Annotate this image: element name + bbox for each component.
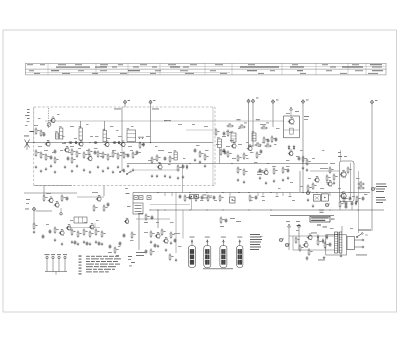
capacitor C7	[94, 150, 97, 155]
wire W_l10	[219, 148, 221, 164]
IF transformer coil L6	[174, 150, 178, 160]
switch contact S1	[119, 169, 124, 173]
resistor R58	[243, 152, 247, 159]
terminal J2	[149, 100, 152, 104]
transistor T23	[340, 192, 347, 200]
mains plug P1	[347, 237, 364, 250]
wire W_f1	[138, 214, 140, 250]
resistor R31	[71, 228, 76, 235]
speaker terminal arrows	[286, 221, 317, 250]
resistor R54	[356, 195, 361, 202]
node N35	[189, 209, 190, 210]
resistor R53	[343, 195, 348, 202]
ceramic filter F3	[147, 196, 151, 200]
capacitor C31	[154, 243, 157, 248]
ground GND8	[76, 164, 79, 167]
node N8	[270, 192, 271, 193]
transistor T29	[124, 218, 129, 224]
title block row line mid	[26, 68, 387, 70]
resistor R20	[156, 154, 160, 161]
mains transformer enclosure	[326, 235, 347, 255]
node N14	[47, 142, 48, 143]
capacitor C46	[287, 168, 290, 173]
ground GND32	[83, 240, 86, 243]
wire W_tone1	[136, 218, 170, 220]
ground GND16	[123, 169, 126, 172]
title block row line b	[26, 71, 231, 73]
transistor T13	[155, 232, 160, 238]
resistor R26	[227, 129, 231, 136]
transistor T24	[307, 234, 312, 240]
heatsink inner rail	[350, 163, 352, 199]
resistor R77	[333, 173, 338, 180]
resistor R1	[40, 129, 45, 136]
left bus3 marks	[125, 188, 131, 207]
mains switch S4	[356, 233, 368, 238]
capacitor C47	[298, 156, 301, 161]
node N2	[157, 209, 158, 210]
label AM section	[26, 192, 98, 204]
ground GND5	[54, 170, 57, 173]
DIN socket BU1	[189, 237, 196, 268]
wire W_boxr	[212, 107, 214, 186]
DIN socket BU2	[204, 237, 211, 268]
resistor R11	[97, 150, 102, 157]
wire W_out	[289, 235, 335, 237]
wire W_j2	[150, 104, 152, 143]
wire W_af1	[299, 171, 301, 192]
resistor R82	[295, 236, 300, 243]
node N12	[252, 145, 253, 146]
node N13	[33, 142, 34, 143]
bus3 tick stubs	[262, 193, 292, 197]
ground GND35	[101, 242, 104, 245]
node N29	[357, 209, 358, 210]
resistor R41	[131, 231, 135, 238]
wire W_am6	[66, 227, 100, 229]
resistor R12	[102, 151, 107, 158]
resistor R24	[204, 153, 208, 160]
node N4	[206, 192, 207, 193]
wire W_out_top	[340, 150, 342, 161]
capacitor C45	[259, 168, 262, 173]
filter block box	[133, 203, 143, 214]
IF transformer coil L9	[252, 131, 256, 141]
ground GND33	[89, 242, 92, 245]
capacitor C28	[123, 233, 126, 238]
variable capacitor CV1	[47, 123, 51, 127]
terminal J8	[32, 207, 35, 211]
wire W_psu4	[340, 253, 342, 256]
resistor R36	[101, 230, 106, 237]
resistor R30	[54, 226, 59, 233]
ground GND28	[54, 238, 57, 241]
bus component leads	[165, 193, 352, 211]
notes text block	[86, 256, 121, 273]
note text right	[376, 184, 387, 192]
ceramic filter F4	[190, 195, 194, 199]
capacitor C37	[255, 195, 258, 200]
resistor R78	[329, 166, 334, 173]
label tone stage	[174, 232, 180, 235]
wire W_j7	[371, 104, 373, 231]
ground GND50	[306, 168, 309, 171]
marks right of filters	[203, 195, 213, 199]
resistor R35	[95, 228, 100, 235]
transistor T20	[314, 176, 319, 182]
label front-end values	[34, 125, 74, 147]
label output stage	[320, 163, 335, 169]
capacitor C12	[136, 150, 139, 155]
ground GND42	[237, 178, 240, 181]
resistor R70	[243, 168, 247, 175]
transistor T12	[96, 195, 101, 201]
node N7	[248, 192, 249, 193]
resistor R34	[89, 230, 94, 237]
wire W_am2	[43, 186, 45, 196]
ground GND26	[199, 160, 202, 163]
label osc top	[152, 109, 171, 122]
ground GND34	[95, 240, 98, 243]
capacitor C23	[98, 241, 101, 246]
transistor T1	[50, 117, 55, 123]
capacitor C43	[267, 138, 270, 143]
driver block box1	[313, 195, 320, 201]
wire W_boxl	[33, 107, 35, 143]
diode D7	[326, 234, 328, 239]
capacitor C29	[145, 249, 148, 254]
wire BUS_SUP	[150, 209, 384, 211]
resistor R81	[357, 186, 364, 189]
wire W_am1	[36, 210, 53, 212]
resistor R6	[71, 148, 76, 155]
ground GND14	[112, 170, 115, 173]
wire W_sw	[133, 169, 180, 171]
resistor R60	[226, 124, 233, 127]
transistor T9	[48, 197, 53, 203]
transistor T16	[231, 142, 236, 148]
electrolytic capacitor C92	[325, 203, 330, 206]
resistor R28	[43, 194, 48, 201]
node N18	[106, 142, 107, 143]
node N15	[64, 142, 65, 143]
ground GND47	[282, 178, 285, 181]
wire W_tone2	[175, 193, 177, 254]
AM lower marks	[108, 252, 119, 256]
arrow above T15	[290, 107, 299, 116]
resistor R44	[145, 213, 149, 220]
transistor T27	[66, 224, 71, 230]
IF input labels	[216, 136, 234, 145]
wire W_osc_dn	[181, 164, 183, 193]
wire W_af2	[310, 170, 340, 172]
diode D1	[186, 164, 188, 169]
capacitor C11	[127, 153, 130, 158]
node N32	[248, 209, 249, 210]
capacitor C17	[223, 131, 226, 136]
resistor R50	[207, 194, 211, 201]
ground GND38	[150, 240, 153, 243]
wire W_am7	[94, 223, 96, 228]
resistor R14	[112, 150, 117, 157]
IF transformer coil L2	[55, 131, 58, 139]
diode D5	[317, 234, 319, 239]
wire W_psu2	[293, 249, 335, 251]
node N19	[122, 142, 123, 143]
resistor R10	[88, 148, 93, 155]
title block text entries	[27, 64, 383, 74]
ground GND20	[156, 174, 159, 177]
resistor R42	[169, 253, 173, 260]
socket caption	[203, 267, 233, 270]
ground GND12	[102, 169, 105, 172]
wire W_gang	[48, 108, 50, 128]
transistor T2	[45, 140, 50, 146]
capacitor C35	[201, 195, 204, 200]
wire W_inner	[186, 129, 213, 131]
ground GND48	[287, 176, 290, 179]
resistor R27	[220, 148, 224, 155]
node N26	[302, 163, 303, 164]
resistor R22	[177, 164, 181, 171]
resistor R15	[117, 152, 122, 159]
title block frame	[26, 63, 387, 75]
text below bus2	[257, 172, 263, 175]
wire W_bu1	[182, 210, 184, 239]
ground GND53	[307, 198, 310, 201]
wire W_j5	[272, 104, 274, 128]
ground GND31	[77, 242, 80, 245]
resistor R33	[83, 228, 88, 235]
node N3	[189, 192, 190, 193]
transistor T22	[340, 170, 347, 178]
capacitor C44	[275, 137, 278, 142]
label at left terminal	[25, 208, 29, 211]
component value labels	[38, 114, 368, 247]
resistor R37	[93, 204, 98, 211]
resistor R48	[184, 194, 188, 201]
transistor T4	[78, 140, 83, 146]
mains transformer TR1	[335, 232, 342, 253]
resistor R17	[132, 151, 136, 158]
ground GND10	[89, 170, 92, 173]
resistor R8	[76, 150, 81, 157]
node N23	[189, 163, 190, 164]
wire W_psu3	[292, 236, 294, 250]
resistor R9	[83, 151, 88, 158]
AGC line parts	[237, 119, 270, 123]
node N30	[329, 209, 330, 210]
resistor R51	[219, 194, 223, 201]
ground GND39	[157, 244, 160, 247]
resistor R49	[195, 194, 199, 201]
resistor R72	[306, 158, 311, 165]
resistor R75	[312, 182, 317, 189]
driver lower parts	[297, 210, 327, 228]
diode D2	[288, 145, 290, 150]
capacitor C48	[225, 218, 228, 223]
wire W_ifv	[121, 107, 123, 142]
resistor R63	[263, 136, 268, 143]
capacitor C19	[66, 196, 69, 201]
node N33	[222, 209, 223, 210]
resistor R57	[237, 154, 241, 161]
wire W_tr	[341, 226, 343, 232]
resistor R2	[35, 149, 40, 156]
capacitor C4	[67, 156, 70, 161]
capacitor C9	[112, 141, 117, 144]
ground GND44	[259, 176, 262, 179]
antenna ANT1	[24, 136, 30, 151]
resistor R47	[170, 231, 174, 238]
output stage heatsink box	[340, 161, 355, 202]
wire BUS_IF	[27, 142, 214, 144]
resistor R4	[45, 153, 50, 160]
transistor T18	[263, 169, 268, 175]
ground GND17	[127, 164, 130, 167]
ground GND22	[169, 175, 172, 178]
capacitor C39	[362, 196, 365, 201]
ground GND23	[177, 176, 180, 179]
terminal J1	[123, 100, 126, 104]
node N31	[270, 209, 271, 210]
resistor R52	[249, 194, 253, 201]
AM filter flat box	[74, 217, 87, 223]
node N22	[159, 163, 160, 164]
capacitor C34	[189, 195, 192, 200]
node N16	[80, 142, 81, 143]
wire W_am3	[103, 186, 105, 196]
resistor R61	[238, 125, 245, 128]
wire AGC_line	[45, 120, 284, 122]
psu caption	[356, 254, 367, 257]
ratio detector diodes	[139, 137, 144, 139]
terminal J5	[271, 100, 274, 104]
ground GND51	[312, 204, 315, 207]
terminal labels	[128, 98, 378, 101]
resistor R45	[150, 230, 154, 237]
transistor T25	[303, 241, 308, 247]
capacitor C26	[119, 241, 122, 246]
node N9	[302, 192, 303, 193]
DIN socket BU3	[220, 237, 227, 268]
node N11	[248, 145, 249, 146]
capacitor C33	[179, 194, 182, 199]
terminal J9	[60, 208, 62, 215]
node N1	[149, 209, 150, 210]
capacitor C20	[49, 229, 52, 234]
resistor R43	[150, 248, 154, 255]
resistor R29	[61, 194, 66, 201]
transistor T8	[157, 163, 162, 169]
capacitor C15	[182, 164, 185, 169]
IF transformer coil L5	[127, 128, 136, 141]
resistor R62	[260, 126, 267, 129]
wire W_ifv2	[121, 143, 123, 170]
capacitor C21	[74, 240, 77, 245]
label detector	[260, 113, 309, 125]
ground GND27	[204, 164, 207, 167]
wire W_f4dn	[191, 199, 193, 211]
transistor T11	[59, 229, 64, 235]
IF transformer coil L4	[103, 129, 107, 142]
capacitor C8	[93, 141, 98, 144]
resistor R39	[114, 246, 119, 253]
resistor R46	[161, 228, 165, 235]
node N21	[150, 142, 151, 143]
label IF amp	[114, 108, 121, 111]
wire W_j4	[252, 103, 254, 146]
label oscillator	[158, 149, 164, 152]
pushbutton switch bank S3	[45, 254, 68, 274]
capacitor C32	[174, 238, 177, 243]
resistor R68	[273, 167, 278, 174]
electrolytic capacitor C95	[279, 238, 284, 241]
resistor R59	[256, 151, 261, 158]
IF transformer coil L10	[217, 137, 221, 147]
terminal J6	[301, 100, 304, 104]
capacitor C14	[164, 156, 167, 161]
capacitor C3	[54, 149, 57, 154]
node N17	[89, 142, 90, 143]
node N28	[341, 192, 342, 193]
ground GND41	[170, 241, 173, 244]
ground GND3	[45, 167, 48, 170]
capacitor C42	[260, 149, 263, 154]
vertical label left edge	[27, 109, 30, 119]
node N20	[139, 142, 140, 143]
resistor R23	[199, 150, 203, 157]
wire W_j1	[124, 104, 126, 107]
IF transformer coil L3	[79, 126, 83, 140]
resistor R38	[103, 204, 108, 211]
capacitor C6	[74, 141, 79, 144]
electrolytic capacitor C91	[371, 187, 376, 190]
ground GND30	[71, 240, 74, 243]
output stage top parts	[338, 152, 347, 157]
psu ground	[306, 256, 309, 260]
ceramic filter F5	[195, 195, 199, 199]
switch contact S2	[126, 171, 131, 175]
node N10	[316, 192, 317, 193]
resistor R74	[307, 184, 312, 191]
title block row line a	[100, 65, 386, 67]
wire W_am4	[33, 211, 35, 224]
node N6	[238, 192, 239, 193]
capacitor C51	[329, 242, 332, 247]
ground GND52	[333, 181, 336, 184]
resistor R66	[264, 144, 271, 147]
DIN socket BU4	[237, 237, 243, 268]
part-number box	[310, 216, 335, 222]
resistor R19	[151, 156, 155, 163]
label FM range	[25, 115, 34, 132]
node N24	[231, 163, 232, 164]
IF output transformer L7	[284, 116, 300, 138]
wire W_l4	[104, 121, 106, 131]
IF transformer coil L1	[59, 126, 63, 139]
resistor R65	[254, 143, 261, 146]
capacitor C25	[109, 244, 112, 249]
resistor R1	[35, 127, 40, 134]
wire W_j6	[302, 104, 304, 193]
ground GND29	[61, 242, 64, 245]
legend symbol column	[79, 256, 82, 275]
resistor R56	[227, 150, 231, 157]
ground GND19	[151, 174, 154, 177]
psu caption 2	[318, 259, 325, 262]
resistor R79	[347, 166, 352, 173]
